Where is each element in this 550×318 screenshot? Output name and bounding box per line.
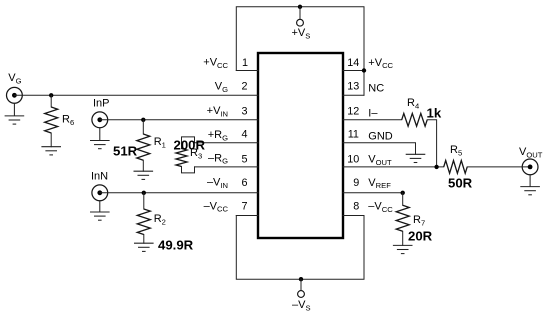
resistor R3 (between +RG and -RG) [182, 137, 195, 149]
resistor R2 [143, 193, 145, 209]
wire R4 to Vout node [427, 120, 436, 167]
node junction R2 tap [142, 191, 146, 195]
svg-text:6: 6 [241, 177, 247, 189]
node junction -Vs terminal tap [299, 277, 303, 281]
svg-text:3: 3 [241, 105, 247, 117]
node junction R1 tap [141, 118, 145, 122]
wire pin7 stub [236, 215, 258, 217]
svg-text:1: 1 [242, 57, 248, 69]
ground R7 [393, 244, 413, 246]
node junction R6 tap [49, 93, 53, 97]
svg-text:NC: NC [368, 83, 384, 95]
svg-text:11: 11 [348, 129, 359, 141]
svg-text:10: 10 [347, 154, 359, 166]
svg-text:14: 14 [347, 57, 359, 69]
terminal +Vs (open circle) [297, 19, 304, 26]
svg-text:8: 8 [353, 200, 359, 212]
svg-text:50R: 50R [448, 176, 473, 191]
svg-text:9: 9 [353, 177, 359, 189]
wire -Vs bottom rail [236, 216, 364, 280]
wire pin12 to R4 [343, 119, 402, 121]
resistor R6 [50, 95, 52, 107]
svg-text:InP: InP [93, 98, 110, 110]
terminal -Vs (open circle) [298, 291, 305, 298]
wire VG to pin2 [14, 94, 258, 96]
wire pin8 stub [343, 215, 364, 217]
svg-text:GND: GND [368, 130, 393, 142]
wire pin14 stub [343, 70, 364, 72]
wire pin1 stub [236, 70, 258, 72]
wire pin10 to R5 [343, 166, 444, 168]
ground VG connector [13, 103, 15, 116]
resistor R7 [402, 193, 404, 206]
svg-text:4: 4 [241, 129, 247, 141]
svg-text:7: 7 [241, 200, 247, 212]
node junction R7 tap [401, 191, 405, 195]
svg-text:I–: I– [368, 107, 378, 119]
wire InN to pin6 [100, 192, 258, 194]
terminal InN input connector [92, 185, 108, 201]
wire pin5 stub [195, 166, 259, 168]
svg-text:5: 5 [241, 154, 247, 166]
ground VOUT connector [529, 175, 531, 187]
op-amp U1 (14-pin IC body) [258, 53, 343, 238]
node junction pin14/+Vs [362, 68, 366, 72]
wire R5 to VOUT terminal [467, 166, 530, 168]
wire pin4 stub [195, 142, 259, 144]
resistor R4 [402, 113, 428, 126]
ground InN connector [99, 201, 101, 212]
ground pin11 [406, 153, 426, 155]
svg-text:20R: 20R [408, 229, 433, 244]
ground R1 [134, 170, 154, 172]
svg-text:13: 13 [347, 81, 359, 93]
terminal VG input connector [6, 87, 22, 103]
resistor R5 [444, 161, 468, 174]
svg-text:49.9R: 49.9R [158, 238, 194, 253]
ground R2 [134, 242, 154, 244]
svg-text:12: 12 [347, 105, 359, 117]
svg-text:51R: 51R [113, 144, 138, 159]
svg-text:2: 2 [241, 81, 247, 93]
wire -Vs terminal stub [300, 279, 302, 291]
wire +Vs terminal stub [299, 7, 301, 20]
terminal InP input connector [92, 112, 108, 128]
node junction R4/Vout [434, 165, 438, 169]
resistor R1 [142, 120, 144, 134]
wire pin9 VREF [343, 192, 403, 194]
node junction +Vs terminal tap [298, 5, 302, 9]
wire pin13 stub (NC) [343, 94, 364, 96]
svg-text:200R: 200R [174, 137, 206, 152]
wire +Vs top rail [236, 7, 364, 96]
wire pin11 to ground [343, 143, 416, 155]
svg-text:1k: 1k [427, 106, 442, 121]
ground R6 [41, 146, 61, 148]
svg-text:InN: InN [91, 171, 108, 183]
terminal VOUT output connector [522, 159, 538, 175]
ground InP connector [99, 128, 101, 141]
wire InP to pin3 [100, 119, 258, 121]
